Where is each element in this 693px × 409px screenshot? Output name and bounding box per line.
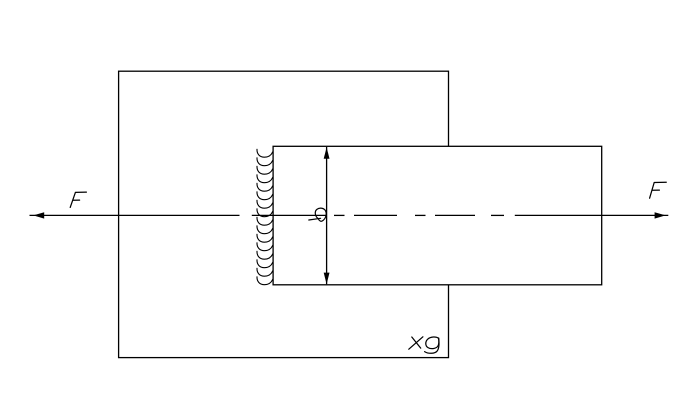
label F right xyxy=(650,182,667,198)
plate 2 (right plate, overlapping, hides plate 1 right edge) xyxy=(273,146,602,284)
dimension arrow up xyxy=(324,147,330,159)
plate 1 (left plate outline) xyxy=(119,71,449,357)
centerline (axis of force), left solid segment with arrow overshoot xyxy=(30,214,240,216)
dimension line b (vertical, between plate 2 edges) xyxy=(326,147,328,284)
dimension arrow down xyxy=(324,273,330,285)
centerline dash-dot segments (right of dimension line) xyxy=(334,214,504,216)
centerline middle solid segment crossing weld and plate edge xyxy=(252,214,326,216)
weld seam (scalloped bead along left edge of plate 2) xyxy=(257,149,273,284)
label xg (weld designation) xyxy=(409,337,439,353)
label b (rotated 90deg) xyxy=(309,208,326,221)
centerline right solid segment with arrow overshoot xyxy=(515,214,669,216)
force arrow right (solid arrowhead pointing right) xyxy=(655,212,666,218)
force arrow left (solid arrowhead pointing left) xyxy=(33,212,44,218)
label F left xyxy=(70,192,86,207)
